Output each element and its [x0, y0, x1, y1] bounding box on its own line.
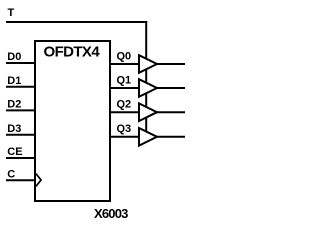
svg-text:Q2: Q2 [117, 99, 132, 111]
wire D2 input [6, 109, 35, 111]
svg-text:OFDTX4: OFDTX4 [44, 44, 101, 61]
tristate buffer on Q0 [139, 55, 157, 73]
wire Q3 from block to buffer [109, 136, 140, 138]
svg-text:D1: D1 [7, 75, 21, 87]
svg-text:C: C [7, 169, 15, 181]
wire Q0 from block to buffer [109, 63, 140, 65]
wire T vertical drop to buffer enables [145, 21, 147, 133]
flip-flop block U1 OFDTX4 body [35, 41, 110, 201]
wire Q2 from block to buffer [109, 111, 140, 113]
svg-text:D2: D2 [7, 99, 21, 111]
svg-text:D0: D0 [7, 51, 21, 63]
svg-text:D3: D3 [7, 123, 21, 135]
svg-text:Q0: Q0 [117, 50, 132, 62]
svg-text:Q1: Q1 [117, 74, 132, 86]
wire Q1 from block to buffer [109, 87, 140, 89]
svg-text:T: T [8, 7, 15, 19]
wire D0 input [6, 62, 35, 64]
wire T horizontal rail [6, 21, 147, 23]
wire C clock input [6, 179, 35, 181]
wire Q3 buffer output [157, 136, 186, 138]
wire Q0 buffer output [157, 63, 186, 65]
svg-text:Q3: Q3 [117, 123, 132, 135]
wire CE input [6, 157, 35, 159]
wire Q2 buffer output [157, 111, 186, 113]
svg-text:CE: CE [7, 146, 22, 158]
tristate buffer on Q2 [139, 103, 157, 121]
wire D3 input [6, 134, 35, 136]
wire Q1 buffer output [157, 87, 186, 89]
wire D1 input [6, 86, 35, 88]
tristate buffer on Q1 [139, 79, 157, 97]
svg-text:X6003: X6003 [94, 206, 128, 221]
clock input chevron on pin C [36, 174, 41, 187]
tristate buffer on Q3 [139, 128, 157, 146]
